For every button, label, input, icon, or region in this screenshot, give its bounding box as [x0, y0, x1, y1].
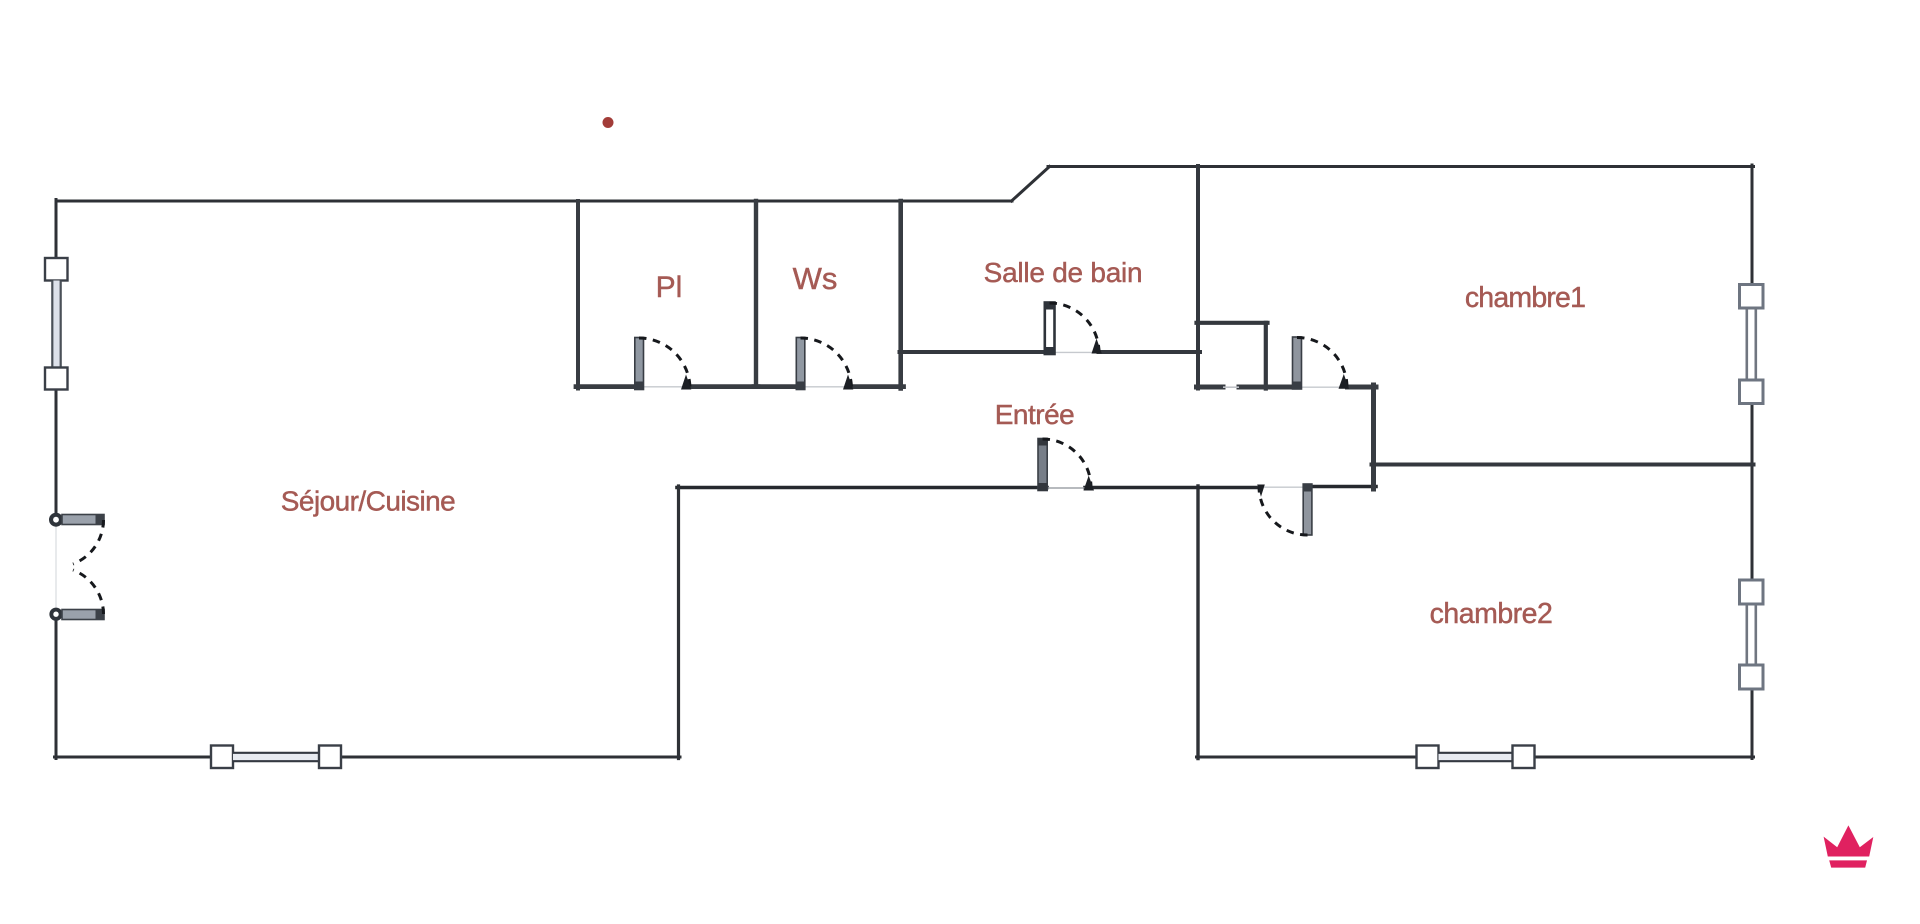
- window W4 chambre1 right: bottom box: [1740, 380, 1764, 404]
- french double door: bottom hinge circle: [49, 608, 62, 621]
- door D4 entree front: swing arc: [1043, 439, 1092, 488]
- wall: corridor top wall middle segment: [1239, 385, 1293, 390]
- door D1 placard: arrow: [681, 375, 691, 390]
- wire: outer top wall left segment: [56, 200, 1012, 203]
- french door opening faint line: [55, 524, 57, 610]
- svg-text:Entrée: Entrée: [995, 399, 1075, 430]
- wall: wc right partition: [898, 201, 903, 389]
- window W3 chambre2 bottom: glass pane: [1439, 753, 1513, 761]
- window W5 chambre2 right: bottom box: [1740, 665, 1764, 689]
- wire: chambre2 bottom wall left segment: [1197, 756, 1418, 759]
- door D6 chambre2: arrow: [1257, 485, 1265, 497]
- door D6 chambre2: leaf: [1303, 484, 1312, 535]
- door opening faint line: bathroom: [1054, 351, 1094, 353]
- closet sliding opening faint line: [1223, 386, 1239, 388]
- window W1 left wall: top box: [45, 258, 68, 281]
- wire: entree bottom wall right segment: [1311, 485, 1376, 489]
- wall: closet right edge: [1264, 323, 1268, 389]
- door D2 wc: leaf: [796, 338, 805, 390]
- window W5 chambre2 right: top box: [1740, 580, 1764, 604]
- wall: placard/wc divider partition: [754, 201, 758, 387]
- window W3 chambre2 bottom: right box: [1513, 746, 1535, 769]
- window W4 chambre1 right: top box: [1740, 285, 1764, 309]
- door opening faint line: placard: [643, 386, 683, 388]
- window W2 sejour bottom: glass pane: [233, 753, 319, 761]
- wall: corridor top wall right stub: [1348, 385, 1377, 390]
- window W2 sejour bottom: right box: [319, 746, 341, 769]
- svg-text:Ws: Ws: [793, 261, 838, 296]
- window W3 chambre2 bottom: left box: [1417, 746, 1439, 769]
- door D4 entree front: arrow: [1084, 476, 1095, 491]
- wire: chambre2 left wall: [1196, 486, 1199, 759]
- wire: entree bottom wall middle segment: [1085, 486, 1256, 490]
- door D5 chambre1: arrow: [1339, 374, 1350, 389]
- door D2 wc: arrow: [843, 375, 853, 390]
- wire: right outer wall lower segment: [1751, 689, 1754, 759]
- french double door: top swing arc: [73, 520, 104, 564]
- wire: entree bottom wall left segment: [677, 486, 1047, 490]
- svg-text:Salle de bain: Salle de bain: [984, 257, 1143, 288]
- wall: between placard door and divider: [689, 384, 759, 389]
- french double door: top leaf: [62, 514, 104, 525]
- wire: chambre2 bottom wall right segment: [1534, 756, 1754, 759]
- wire: left outer wall mid segment: [55, 389, 58, 514]
- svg-text:chambre2: chambre2: [1430, 598, 1553, 630]
- svg-text:Séjour/Cuisine: Séjour/Cuisine: [281, 486, 455, 517]
- door D4 entree front: leaf: [1038, 439, 1047, 492]
- wall: wc bottom right segment: [850, 384, 904, 389]
- door D2 wc: swing arc: [801, 338, 852, 389]
- door D6 chambre2: swing arc: [1259, 487, 1308, 536]
- wire: sejour right wall: [677, 486, 680, 759]
- wire: sejour bottom wall right segment: [341, 756, 681, 759]
- wire: left outer wall lower segment: [55, 620, 58, 759]
- wall: chambre1 lower-left vertical partition: [1371, 385, 1376, 489]
- wire: sejour bottom wall left segment: [55, 756, 212, 759]
- french double door: bottom swing arc: [73, 570, 104, 614]
- wall: corridor top wall left stub: [1197, 385, 1224, 390]
- window W1 left wall: bottom box: [45, 368, 68, 390]
- door D3 bathroom: leaf: [1045, 303, 1055, 355]
- wall: closet top edge: [1197, 321, 1268, 325]
- window W5 chambre2 right: glass pane: [1747, 604, 1756, 665]
- wire: outer top diagonal segment: [1012, 167, 1050, 202]
- door opening faint line: chambre2 door: [1264, 486, 1304, 488]
- wire: right outer wall middle segment: [1751, 404, 1754, 581]
- door opening faint line: chambre1 door: [1301, 386, 1341, 388]
- door opening faint line: wc: [804, 386, 846, 388]
- window W2 sejour bottom: left box: [211, 746, 233, 769]
- window W1 left wall: glass pane: [52, 281, 60, 369]
- wall: bathroom bottom right segment: [1099, 350, 1201, 354]
- door D3 bathroom: swing arc: [1050, 303, 1100, 353]
- svg-text:chambre1: chambre1: [1465, 282, 1585, 314]
- red dot marker: [603, 117, 614, 128]
- door D5 chambre1: swing arc: [1297, 338, 1347, 388]
- window W4 chambre1 right: glass pane: [1747, 308, 1756, 380]
- wire: outer top wall right segment: [1048, 165, 1754, 168]
- door D1 placard: leaf: [635, 338, 644, 390]
- wall: chambre1 left partition: [1196, 166, 1200, 389]
- wire: right outer wall upper segment: [1751, 165, 1754, 285]
- wall: bathroom bottom left segment: [900, 350, 1045, 354]
- svg-text:Pl: Pl: [656, 271, 683, 304]
- wire: left outer wall upper segment: [55, 200, 58, 259]
- door D1 placard: swing arc: [639, 338, 690, 389]
- french double door: bottom leaf: [62, 609, 104, 620]
- door D5 chambre1: leaf: [1293, 337, 1302, 390]
- wall: wc bottom left stub: [754, 384, 797, 389]
- wall: placard bottom segment: [576, 384, 635, 389]
- wall: placard room left partition: [576, 201, 580, 389]
- door D3 bathroom: arrow: [1092, 339, 1102, 354]
- logo crown: [1824, 825, 1874, 867]
- french double door: top hinge circle: [49, 513, 63, 527]
- door opening faint line: entree front door: [1047, 487, 1086, 489]
- wall: chambre1/chambre2 divider: [1372, 463, 1754, 467]
